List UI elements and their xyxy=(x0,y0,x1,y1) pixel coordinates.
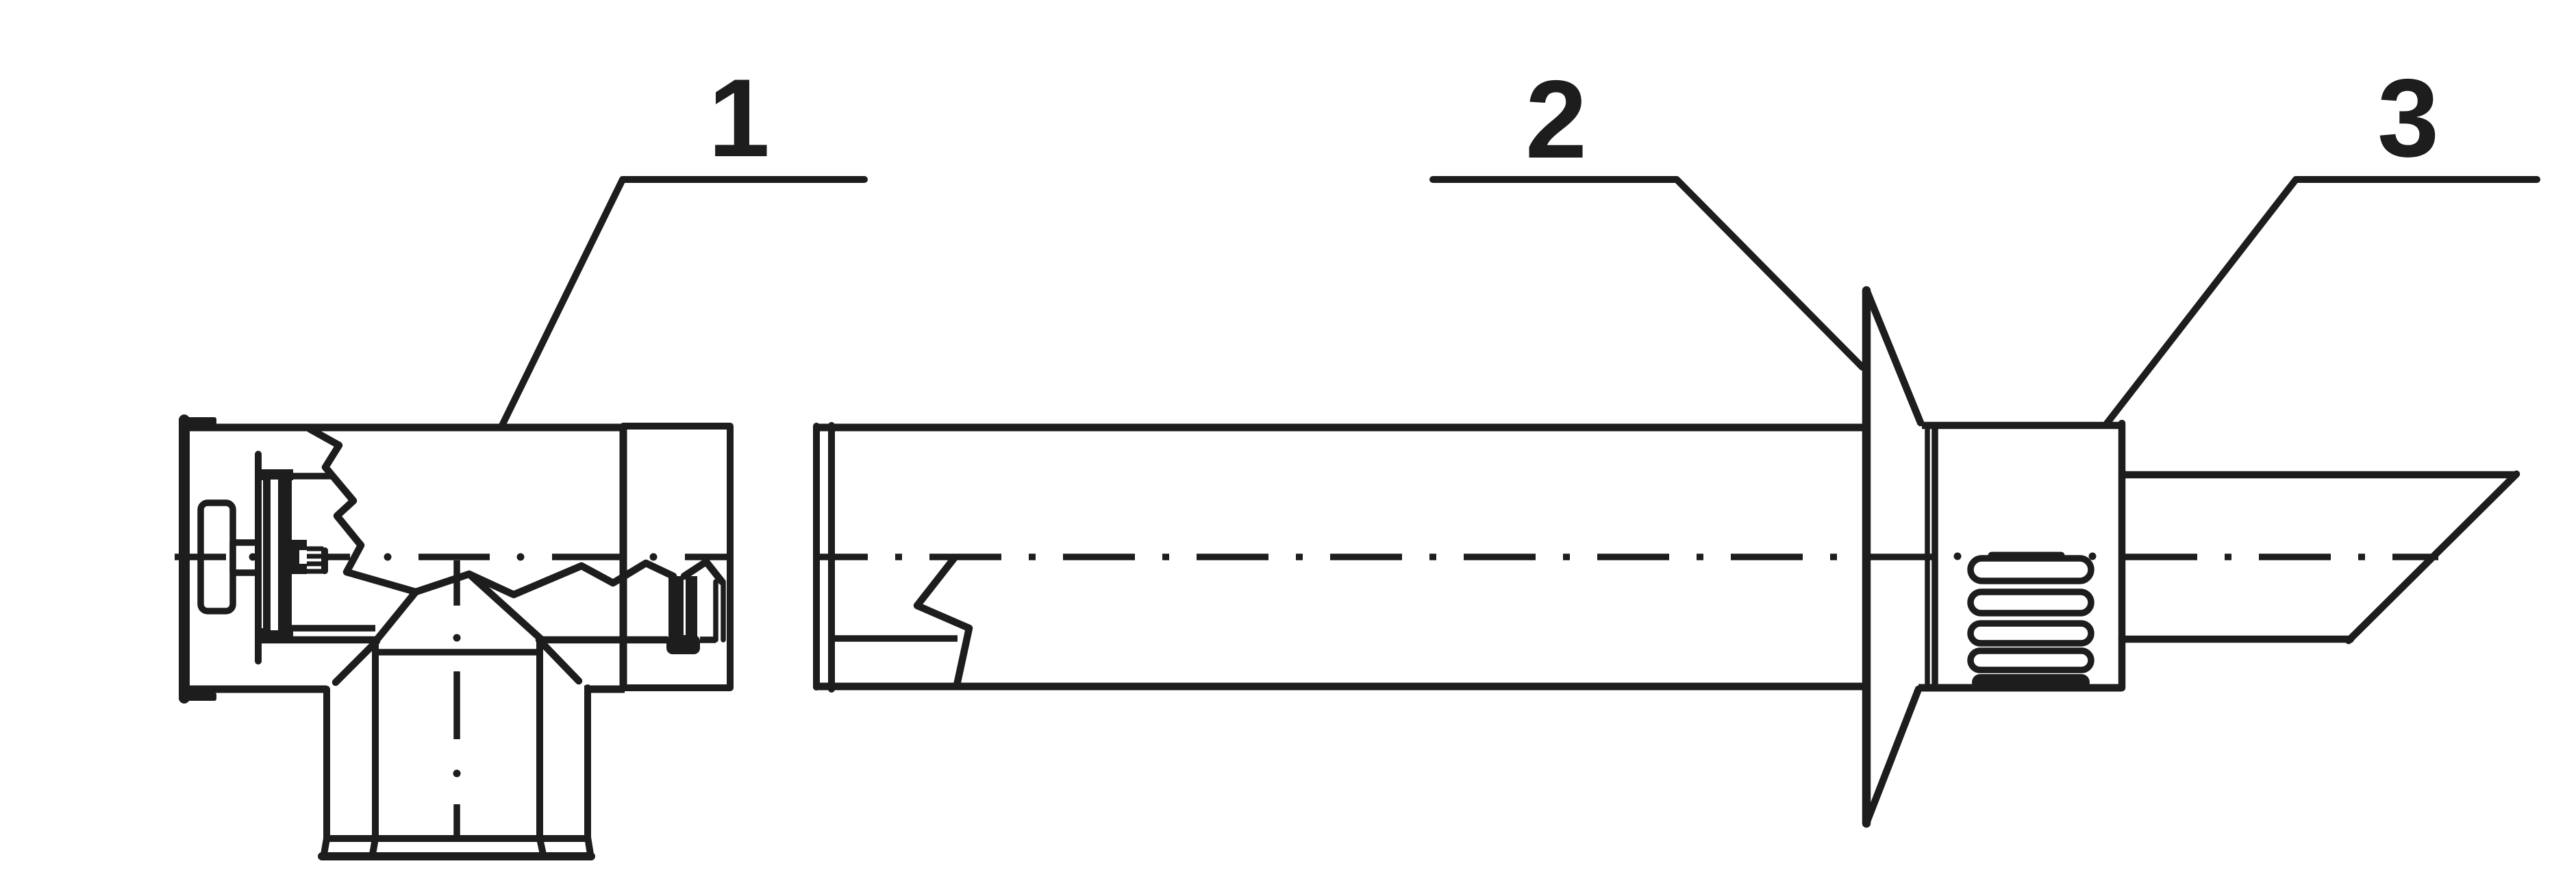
cap disk bottom flange xyxy=(260,628,293,640)
vent slot 4 xyxy=(1971,651,2091,670)
terminal box left double line outer xyxy=(1925,425,1930,688)
branch inner right wall xyxy=(540,642,543,854)
tee body: bottom edge right xyxy=(584,686,625,693)
screw shank thread lines xyxy=(307,549,323,571)
tee end cap divider xyxy=(620,424,627,691)
tee body: top tab xyxy=(179,417,216,425)
pipe break zigzag xyxy=(917,558,969,685)
svg-text:1: 1 xyxy=(708,56,770,180)
inner cone right side xyxy=(469,574,541,639)
screw shank end xyxy=(321,547,328,574)
vent slot 1 xyxy=(1971,558,2091,581)
svg-text:2: 2 xyxy=(1525,58,1587,182)
branch skirt left diagonal xyxy=(336,641,377,682)
branch inner left wall xyxy=(373,642,375,854)
inner cone left side xyxy=(377,592,416,640)
terminal pipe bottom edge xyxy=(2122,636,2351,643)
tee break zigzag left xyxy=(310,429,416,592)
cap disk top flange xyxy=(260,469,293,480)
drain plug left bar xyxy=(668,576,684,638)
terminal pipe mitre cut xyxy=(2349,474,2516,641)
inner tube bottom line upper xyxy=(292,625,375,632)
wall flange plate xyxy=(1862,290,1871,823)
centerline horizontal run 2 (pipe to terminal) xyxy=(818,554,1938,560)
terminal box top edge xyxy=(1922,422,2122,430)
drain plug foot xyxy=(666,635,700,654)
tee body: top edge xyxy=(180,424,623,432)
terminal pipe top edge xyxy=(2122,471,2513,479)
screw nut notch xyxy=(299,550,308,564)
drain plug collar lines xyxy=(716,582,723,640)
svg-text:3: 3 xyxy=(2377,56,2439,180)
tee end cap outline xyxy=(623,426,730,688)
inner tube bottom line left xyxy=(261,636,378,644)
leader line 2 xyxy=(1433,179,1862,367)
drain plug right bar xyxy=(686,576,697,638)
branch bottom rim upper xyxy=(323,835,588,842)
pipe bottom edge xyxy=(817,683,1863,691)
vent bottom filled slot xyxy=(1972,674,2090,691)
cap disk body xyxy=(263,470,292,640)
wall flange bottom diagonal xyxy=(1867,689,1918,821)
centerline vertical branch xyxy=(453,560,460,839)
branch bottom rim lower xyxy=(322,852,591,860)
pipe inner lower line xyxy=(833,635,958,642)
pipe left end outer edge xyxy=(813,426,820,687)
inner tube bottom line right xyxy=(541,636,668,644)
wall flange top diagonal xyxy=(1868,293,1921,423)
terminal box right edge xyxy=(2118,423,2126,688)
centerline horizontal run 1 (tee) xyxy=(175,554,727,560)
terminal box bottom edge xyxy=(1918,684,2122,692)
vent slot 2 xyxy=(1971,592,2091,613)
inner tube top line xyxy=(290,473,333,480)
pipe left end inner edge xyxy=(828,425,835,689)
centerline dot left of vents xyxy=(1954,553,1962,560)
tee body: bottom tab xyxy=(179,693,216,701)
terminal box left double line inner xyxy=(1931,425,1938,688)
leader line 1 xyxy=(502,179,864,425)
centerline dot right of vents xyxy=(2089,553,2097,560)
branch outer left wall xyxy=(324,689,327,854)
wing screw hub xyxy=(233,543,258,573)
branch outer right wall xyxy=(588,688,590,854)
vent slot 3 xyxy=(1971,623,2091,643)
drain plug base line xyxy=(700,636,716,643)
tee break wavy line xyxy=(416,563,673,595)
tee break peak over plug xyxy=(684,562,722,582)
cap plate rod xyxy=(255,454,262,661)
cap disk slit xyxy=(271,480,278,630)
pipe top edge xyxy=(817,424,1863,432)
wing screw knob xyxy=(201,503,233,611)
leader line 3 xyxy=(2107,179,2537,423)
screw nut xyxy=(290,540,307,574)
tee body: left wall xyxy=(179,420,190,698)
branch skirt right diagonal xyxy=(539,640,579,681)
branch opening back edge xyxy=(377,649,541,656)
vent top bar xyxy=(1992,552,2061,560)
tee body: bottom edge left xyxy=(180,686,327,693)
